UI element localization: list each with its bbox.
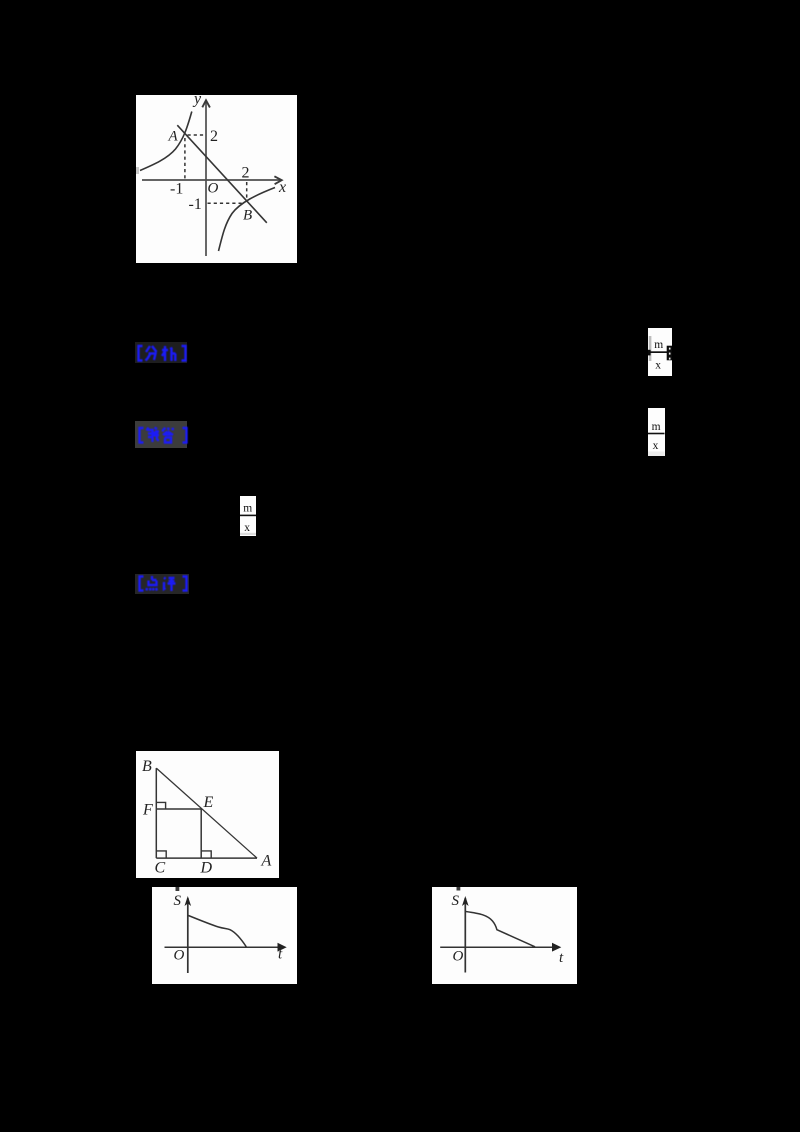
figure 4: S-t graph option right — [432, 887, 577, 984]
distance-time curve — [188, 916, 246, 948]
x-axis — [142, 179, 281, 181]
fraction image A: m over x — [648, 328, 672, 377]
char ping — [164, 578, 176, 592]
svg-text:C: C — [155, 860, 166, 877]
svg-text:O: O — [208, 181, 219, 197]
y-axis arrow — [202, 100, 210, 107]
svg-text:x: x — [655, 359, 661, 371]
bracket left — [140, 428, 144, 443]
small dark tick top edge — [457, 887, 461, 891]
segment FE — [156, 808, 201, 810]
svg-text:-1: -1 — [189, 196, 202, 213]
hypotenuse AB — [156, 768, 257, 858]
bracket left — [140, 577, 144, 591]
hyperbola branch fourth quadrant — [219, 188, 276, 252]
figure 2: right triangle with inscribed square — [136, 751, 279, 878]
svg-text:E: E — [203, 794, 214, 811]
hyperbola branch second quadrant — [140, 112, 192, 171]
right angle mark at C — [156, 851, 166, 858]
y-axis — [205, 101, 207, 257]
svg-text:B: B — [243, 208, 252, 224]
svg-text:S: S — [452, 893, 460, 909]
S axis — [464, 898, 466, 973]
svg-text:B: B — [142, 758, 152, 775]
svg-text:-1: -1 — [170, 181, 183, 198]
figure 3: S-t graph option left — [152, 887, 297, 984]
svg-text:F: F — [142, 802, 153, 819]
blue label 1 analysis — [135, 342, 187, 363]
svg-text:O: O — [453, 949, 464, 965]
t axis — [165, 946, 280, 948]
svg-text:x: x — [653, 440, 659, 452]
small dark tick top edge — [176, 887, 180, 891]
figure 1: hyperbola and line graph — [136, 95, 297, 263]
char fen — [146, 346, 157, 361]
dashed helper lines for A — [188, 134, 206, 136]
bracket right — [182, 346, 186, 361]
blue label 3 comment — [135, 574, 189, 594]
grey nub at left edge — [136, 167, 139, 174]
dashed helper lines for B — [246, 182, 248, 202]
fraction image B: m over x — [648, 408, 665, 456]
char da — [163, 428, 175, 443]
char jie — [147, 428, 160, 443]
svg-text:m: m — [243, 502, 252, 514]
svg-text:S: S — [174, 893, 182, 909]
segment ED — [200, 809, 202, 858]
bracket right — [183, 577, 187, 591]
svg-text:m: m — [652, 421, 661, 433]
fraction image C: m over x — [240, 496, 256, 537]
svg-text:y: y — [192, 95, 202, 108]
svg-text:A: A — [168, 129, 179, 145]
svg-text:A: A — [261, 853, 272, 870]
char xi — [162, 346, 176, 361]
svg-text:2: 2 — [242, 165, 250, 182]
side BC — [155, 768, 157, 858]
svg-text:x: x — [278, 179, 286, 196]
side CA — [156, 857, 257, 859]
svg-text:m: m — [654, 338, 663, 350]
blue label 2 answer — [135, 421, 187, 448]
svg-text:x: x — [244, 521, 250, 533]
bracket right — [183, 428, 187, 443]
right angle mark at D — [201, 851, 211, 858]
distance-time curve — [466, 912, 535, 947]
right angle mark at F — [156, 802, 165, 809]
x-axis arrow — [274, 176, 281, 184]
line AB — [177, 125, 266, 223]
char dian — [147, 576, 158, 591]
svg-text:2: 2 — [210, 128, 218, 145]
S axis — [187, 898, 189, 973]
svg-text:D: D — [200, 860, 213, 877]
svg-text:O: O — [174, 948, 185, 964]
t axis — [440, 946, 553, 948]
bracket left — [139, 346, 143, 361]
svg-text:t: t — [559, 950, 564, 966]
